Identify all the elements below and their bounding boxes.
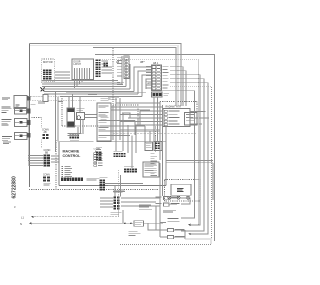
- label small left labels: [101, 98, 111, 101]
- wire AB to right bus 1: [170, 75, 200, 225]
- label external component group 3: [2, 135, 12, 138]
- switch door lock: [123, 222, 133, 224]
- wire top run 1: [30, 44, 182, 107]
- junction blobs on frame: [27, 96, 30, 100]
- wire bundle horizontals: [42, 84, 146, 97]
- svg-text:BB: BB: [45, 153, 49, 155]
- label external component group 2: [2, 118, 12, 121]
- label strip right: [87, 177, 100, 180]
- connector bottom-left of board: [100, 177, 108, 180]
- connector AB1 column: [124, 56, 129, 79]
- wire S2 to frame: [27, 110, 30, 112]
- connector small aux: [104, 63, 106, 65]
- wire AB to right bus 3: [170, 83, 208, 234]
- wire switch to terminals: [144, 223, 164, 230]
- label AB pins left: [146, 65, 151, 68]
- wire radiant leads left: [120, 111, 163, 125]
- svg-text:AB: AB: [44, 131, 48, 134]
- wire left jog dashed 1: [28, 96, 62, 98]
- label below lock cluster: [111, 212, 122, 215]
- radiant heater table: [163, 109, 190, 127]
- wire double mid run: [120, 129, 160, 131]
- switch door SW symbol: [77, 113, 85, 120]
- wire bottom mid verticals: [156, 163, 185, 239]
- wire right dotted run: [100, 60, 199, 225]
- connector list box BR: [97, 103, 111, 141]
- junction X blob: [41, 88, 45, 92]
- connector AB main two-column: [152, 65, 162, 91]
- terminal row 1: [164, 197, 170, 200]
- relay K1: [67, 108, 75, 127]
- label mid cluster: [70, 139, 79, 142]
- switch S1 (left margin top box): [14, 96, 27, 109]
- connector AB ground row: [152, 92, 163, 97]
- terminal row 4: [168, 229, 174, 232]
- wire bundle extra: [42, 81, 120, 83]
- label sensor note: [139, 204, 151, 207]
- connector motor pins: [43, 70, 45, 72]
- connector board edge strip: [61, 178, 63, 181]
- wire L1 supply: [31, 216, 119, 218]
- wire S3 to frame: [27, 121, 30, 123]
- machine control board box: [59, 142, 166, 186]
- wire lock leads left: [100, 198, 113, 207]
- label AB1 pin labels: [117, 56, 123, 59]
- wire left jog dashed 2: [30, 99, 97, 101]
- motor M1 dashed box: [41, 59, 54, 82]
- wire motor leads right: [55, 72, 70, 78]
- svg-text:AB: AB: [116, 61, 120, 64]
- label AB pins right: [162, 65, 168, 68]
- label oven lamp note: [88, 94, 97, 97]
- switch S4 left margin: [15, 133, 28, 140]
- wire BB to board: [51, 156, 59, 162]
- wire N supply: [29, 222, 123, 224]
- label top box left: [2, 97, 10, 100]
- label door lock switch: [129, 231, 138, 234]
- wire vertical mid-left: [56, 92, 59, 152]
- wire relay feeds: [69, 94, 97, 118]
- label top wire tags: [38, 100, 44, 103]
- wire bottom dotted: [120, 239, 211, 245]
- connector TOD right: [154, 142, 162, 151]
- wire double run to lamp: [166, 161, 213, 201]
- wire bundle verticals to AB: [122, 56, 130, 89]
- arrow junction right bus A: [188, 224, 190, 226]
- lamp L3: [186, 196, 189, 199]
- wire stepped path: [100, 113, 145, 136]
- label lock motor: [113, 190, 125, 193]
- label BR rows: [99, 105, 109, 108]
- wire top run 3: [93, 48, 176, 107]
- wire mid extra horizontals: [111, 103, 163, 142]
- label board pin list: [62, 165, 64, 168]
- label lower-left: [44, 182, 51, 185]
- terminal row 2: [164, 203, 170, 206]
- box aux right of radiant: [185, 113, 198, 126]
- svg-text:CONTROL: CONTROL: [63, 154, 82, 158]
- label wire note: [108, 97, 119, 100]
- machine control console dashed outline: [29, 48, 197, 196]
- wire below board horizontals: [105, 184, 143, 186]
- svg-text:MOTOR: MOTOR: [43, 60, 53, 64]
- wire left inner vertical: [27, 96, 29, 166]
- wire AB top rows right: [170, 67, 186, 106]
- label board right pin rows: [151, 153, 155, 156]
- wire lock drops: [115, 175, 123, 223]
- wire mid verticals extra: [123, 113, 136, 168]
- svg-text:62722880: 62722880: [12, 176, 18, 198]
- svg-text:LATCH: LATCH: [74, 63, 82, 66]
- lamp L2: [177, 196, 180, 199]
- lamp box oven light: [171, 184, 191, 195]
- wire switch drops: [78, 120, 83, 135]
- switch S2 left margin: [15, 108, 27, 115]
- lamp assembly dashed outline: [165, 180, 201, 202]
- wire AB ground drops: [154, 97, 158, 142]
- wire S4 to frame: [27, 135, 30, 137]
- wire AB to right bus 2: [170, 79, 204, 231]
- connector mid cluster: [70, 135, 72, 137]
- wire AB to right bus 5: [162, 91, 195, 218]
- svg-text:CONN: CONN: [43, 175, 50, 177]
- connector lock cluster: [114, 197, 117, 199]
- connector board mid 1: [96, 147, 102, 150]
- terminal row 3: [168, 217, 179, 220]
- label above board: [68, 132, 82, 135]
- connector latch right pins: [96, 60, 98, 62]
- label below cluster: [114, 190, 125, 193]
- door latch switch box: [72, 59, 94, 80]
- connector board mid 2: [114, 150, 123, 153]
- label lamp: [177, 187, 184, 190]
- wire lock leads right: [121, 198, 160, 206]
- fuse box in left jog: [43, 95, 48, 102]
- wire latch pins leads: [102, 61, 113, 73]
- box TOD: [145, 142, 153, 151]
- svg-text:N: N: [20, 222, 22, 226]
- wire left frame vertical: [29, 44, 31, 188]
- wire top run 2 dotted: [30, 46, 179, 106]
- wire AB to right bus 4: [170, 87, 212, 239]
- lamp L1: [168, 196, 171, 199]
- wire latch internal drops: [75, 68, 90, 88]
- wire right outer run: [95, 55, 215, 242]
- svg-text:AB 1: AB 1: [153, 62, 159, 65]
- wire bundle risers to connector: [134, 67, 152, 97]
- wire frame to BB: [28, 156, 43, 166]
- label wire colors: [117, 82, 124, 85]
- svg-text:3: 3: [14, 205, 16, 209]
- label tiny note above group1: [3, 141, 11, 144]
- label external component group 1: [2, 106, 11, 109]
- svg-text:RADIANT HTR: RADIANT HTR: [166, 106, 182, 109]
- label door switch: [77, 108, 85, 111]
- label ground row: [164, 92, 170, 95]
- svg-text:MACHINE: MACHINE: [63, 150, 80, 154]
- svg-text:L1: L1: [21, 216, 24, 220]
- switch S3 left margin: [15, 119, 28, 127]
- wire long dashed mid: [113, 132, 196, 134]
- connector list right: [143, 162, 159, 177]
- wire radiant leads right: [190, 112, 209, 125]
- connector board mid 3: [124, 166, 134, 169]
- wire mid drops: [113, 98, 166, 196]
- terminal row 5: [168, 236, 174, 239]
- label therm note: [163, 209, 176, 212]
